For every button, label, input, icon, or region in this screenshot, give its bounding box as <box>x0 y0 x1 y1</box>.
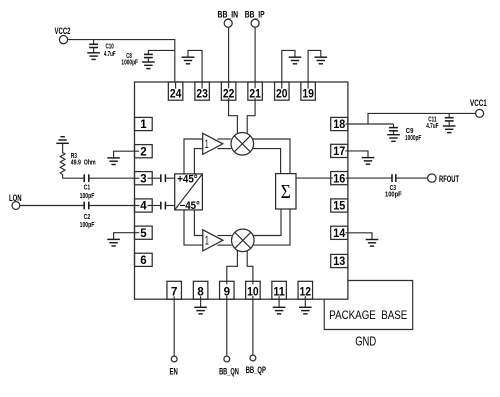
op-amp A2 (bottom buffer) <box>203 230 223 251</box>
svg-text:49.9 Ohm: 49.9 Ohm <box>71 159 96 166</box>
ground (pin 5) <box>107 239 120 246</box>
svg-text:100pF: 100pF <box>385 191 402 198</box>
pin 9 <box>220 281 235 299</box>
svg-text:C10: C10 <box>106 44 114 51</box>
svg-text:GND: GND <box>355 335 376 349</box>
svg-text:−45°: −45° <box>180 200 200 212</box>
svg-text:11: 11 <box>273 286 285 298</box>
pin 6 <box>135 253 153 267</box>
ground (pin 12) <box>299 299 312 314</box>
svg-text:16: 16 <box>333 173 345 185</box>
summer U2 sigma <box>276 174 296 209</box>
capacitor (pin 3 to phase box) <box>152 174 175 182</box>
svg-text:BB_QN: BB_QN <box>219 367 239 377</box>
svg-text:VCC2: VCC2 <box>55 26 71 36</box>
ground (pin 19) <box>315 57 328 64</box>
pin 13 <box>331 254 348 268</box>
ground (C10) <box>87 53 100 60</box>
pin 23 <box>195 82 210 100</box>
pin 11 <box>272 281 287 299</box>
ground (pin 17) <box>362 158 375 165</box>
svg-text:5: 5 <box>140 228 147 240</box>
svg-text:RFOUT: RFOUT <box>439 174 459 184</box>
ground (pin 11) <box>273 299 286 314</box>
svg-text:13: 13 <box>333 256 345 268</box>
wire pin 17 ground jog <box>348 151 368 158</box>
pin 7 <box>167 281 182 299</box>
node BB_IP terminal <box>245 10 265 28</box>
svg-text:22: 22 <box>223 88 235 100</box>
node VCC1 terminal <box>470 98 487 117</box>
node LON terminal <box>9 193 22 209</box>
capacitor C8 1000pF <box>121 50 174 66</box>
capacitor C10 4.7uF <box>89 40 116 58</box>
svg-text:LON: LON <box>9 193 22 203</box>
svg-text:VCC1: VCC1 <box>470 98 487 108</box>
wire mixer M1 to summer (lower) <box>253 149 281 174</box>
svg-text:C2: C2 <box>84 214 91 221</box>
svg-text:23: 23 <box>196 88 208 100</box>
svg-text:4: 4 <box>140 201 147 213</box>
pin 5 <box>135 226 153 240</box>
svg-text:1: 1 <box>205 139 209 151</box>
svg-text:EN: EN <box>170 367 179 377</box>
wire pin 7 to EN <box>173 299 175 356</box>
svg-text:4.7uF: 4.7uF <box>104 51 116 58</box>
ground (pin 20) <box>289 57 302 64</box>
svg-text:20: 20 <box>276 88 288 100</box>
wire pin 21 to mixer M1 input <box>247 100 255 134</box>
capacitor C2 100pF <box>80 202 135 229</box>
wire BB_IP to pin 21 <box>254 27 256 82</box>
capacitor C1 100pF <box>80 174 135 200</box>
svg-text:19: 19 <box>302 88 314 100</box>
resistor R3 49.9 Ohm <box>60 143 95 178</box>
mixer M2 (bottom) <box>232 229 255 252</box>
pin 17 <box>331 144 348 158</box>
pin 12 <box>298 281 313 299</box>
svg-text:BB_IP: BB_IP <box>245 10 265 20</box>
capacitor C11 4.7uF <box>426 113 453 130</box>
wire VCC2 to pin 24 <box>68 40 175 82</box>
svg-text:C9: C9 <box>406 128 414 135</box>
wire R3 junction to C1 <box>63 177 85 179</box>
svg-text:BB_IN: BB_IN <box>218 10 239 20</box>
wire amp A1 to mixer M1 (upper) <box>218 138 232 140</box>
svg-text:3: 3 <box>140 173 146 185</box>
svg-text:1000pF: 1000pF <box>405 135 422 142</box>
node BB_QP terminal <box>246 355 266 375</box>
pin 14 <box>331 226 348 240</box>
svg-text:8: 8 <box>197 286 204 298</box>
node BB_IN terminal <box>218 10 239 28</box>
svg-text:BB_QP: BB_QP <box>246 365 266 375</box>
wire mixer M1 to summer (upper) <box>253 139 290 174</box>
ground (pin 8) <box>194 299 207 314</box>
wire mixer M2 to summer (lower) <box>253 209 290 245</box>
mixer M1 (top) <box>231 133 254 156</box>
phase shifter X1 +45/-45 <box>175 174 203 212</box>
svg-text:PACKAGE BASE: PACKAGE BASE <box>329 308 407 322</box>
svg-text:100pF: 100pF <box>80 193 95 200</box>
svg-text:1: 1 <box>140 119 147 131</box>
ground (pin 14) <box>366 240 379 247</box>
wire pin 9 to BB_QN <box>226 299 228 356</box>
wire pin 23 ground jog <box>188 50 202 82</box>
svg-text:18: 18 <box>333 119 346 131</box>
wire pin 20 ground jog <box>282 50 295 82</box>
pin 8 <box>193 281 208 299</box>
node EN terminal <box>170 356 179 377</box>
svg-text:1000pF: 1000pF <box>121 59 138 66</box>
svg-text:C1: C1 <box>84 184 91 191</box>
wire amp A2 to mixer M2 (lower) <box>218 244 232 246</box>
wire pin 16 to C3 <box>348 177 392 179</box>
svg-text:4.7uF: 4.7uF <box>426 123 439 130</box>
wire pin 19 ground jog <box>308 50 321 82</box>
wire pin 14 ground jog <box>348 233 372 240</box>
wire phase box top-right to amp A1 lower input <box>194 149 202 174</box>
node VCC2 terminal <box>55 26 71 44</box>
wire pin 10 to BB_QP <box>252 299 254 355</box>
wire VCC1 riser <box>368 113 476 124</box>
svg-text:6: 6 <box>140 255 146 267</box>
wire amp A2 to mixer M2 (upper) <box>218 235 232 237</box>
IC body outline U1 <box>135 82 348 299</box>
svg-text:15: 15 <box>333 201 346 213</box>
pin 19 <box>301 82 316 100</box>
wire pin 5 ground jog <box>114 233 135 240</box>
wire phase box bottom-right to amp A2 upper input <box>194 210 202 236</box>
wire LON to C2 <box>20 205 84 207</box>
pin 22 <box>221 82 236 100</box>
wire phase box bottom-left to amp A2 lower input <box>184 210 203 245</box>
pin 3 <box>135 172 153 186</box>
wire pin 9 to mixer M2 input <box>227 250 238 281</box>
wire amp A1 to mixer M1 (lower) <box>218 148 232 150</box>
pin 20 <box>275 82 290 100</box>
pin 16 <box>331 172 348 186</box>
svg-text:1: 1 <box>205 235 209 247</box>
ground (pin 23) <box>182 57 195 64</box>
wire pin 22 to mixer M1 input <box>229 100 238 134</box>
wire pin 18 to C9 <box>348 123 394 125</box>
wire summer to pin 16 <box>296 177 331 179</box>
ground (C11) <box>443 126 456 133</box>
pin 2 <box>135 145 153 159</box>
node BB_QN terminal <box>219 356 239 377</box>
capacitor C9 1000pF <box>389 124 422 142</box>
svg-text:7: 7 <box>171 286 177 298</box>
ground (C8) <box>142 62 155 69</box>
svg-text:14: 14 <box>333 228 346 240</box>
pin 10 <box>246 281 261 299</box>
svg-text:21: 21 <box>249 88 261 100</box>
ground (C9) <box>387 135 400 142</box>
svg-text:+45°: +45° <box>177 174 198 186</box>
pin 4 <box>135 199 153 213</box>
svg-text:10: 10 <box>247 286 259 298</box>
wire mixer M2 to summer (upper) <box>253 209 281 236</box>
wire phase box top-left to amp A1 upper input <box>184 139 203 174</box>
ground (pin 2) <box>107 158 120 165</box>
svg-text:100pF: 100pF <box>80 222 95 229</box>
svg-text:12: 12 <box>300 286 312 298</box>
wire pin 10 to mixer M2 input <box>247 250 253 281</box>
node RFOUT terminal <box>428 174 460 184</box>
pin 21 <box>248 82 263 100</box>
svg-text:Σ: Σ <box>281 181 291 203</box>
pin 1 <box>135 117 153 131</box>
svg-text:9: 9 <box>224 286 230 298</box>
ground (R3, pointing up) <box>56 137 69 144</box>
capacitor C3 100pF <box>385 174 428 198</box>
wire BB_IN to pin 22 <box>228 27 230 82</box>
op-amp A1 (top buffer) <box>203 133 223 154</box>
svg-text:2: 2 <box>140 146 146 158</box>
svg-text:24: 24 <box>170 88 182 100</box>
capacitor (pin 4 to phase box) <box>152 202 175 210</box>
wire pin 2 ground jog <box>114 151 135 158</box>
pin 24 <box>168 82 183 100</box>
svg-text:17: 17 <box>333 146 345 158</box>
pin 15 <box>331 199 348 213</box>
pin 18 <box>331 117 348 131</box>
package base outline <box>324 281 413 330</box>
